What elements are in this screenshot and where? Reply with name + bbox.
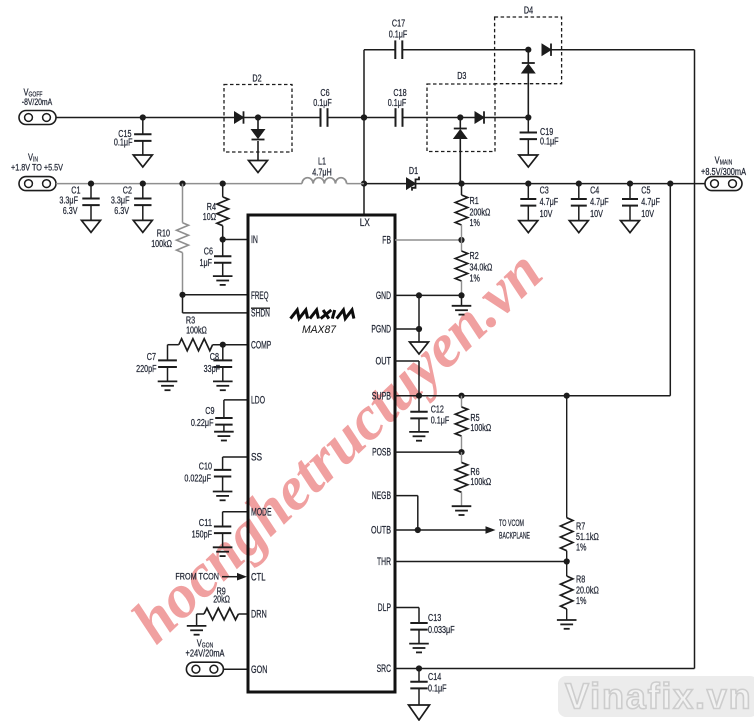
svg-text:BACKPLANE: BACKPLANE bbox=[499, 531, 530, 541]
svg-text:PGND: PGND bbox=[371, 324, 391, 336]
svg-text:+24V/20mA: +24V/20mA bbox=[186, 649, 225, 660]
svg-text:1%: 1% bbox=[470, 218, 480, 229]
svg-text:C12: C12 bbox=[431, 404, 445, 415]
svg-text:150pF: 150pF bbox=[192, 530, 212, 541]
svg-text:1%: 1% bbox=[576, 596, 586, 607]
svg-text:SRC: SRC bbox=[377, 663, 391, 675]
svg-text:C13: C13 bbox=[428, 613, 442, 624]
svg-text:GON: GON bbox=[251, 664, 267, 676]
svg-text:0.1μF: 0.1μF bbox=[313, 98, 332, 109]
svg-text:COMP: COMP bbox=[251, 339, 271, 351]
svg-text:0.22μF: 0.22μF bbox=[191, 418, 214, 429]
svg-text:C17: C17 bbox=[392, 19, 406, 30]
svg-text:CTL: CTL bbox=[251, 571, 266, 583]
svg-text:L1: L1 bbox=[318, 156, 326, 167]
svg-text:1%: 1% bbox=[470, 274, 480, 285]
svg-text:C8: C8 bbox=[210, 352, 220, 363]
svg-text:51.1kΩ: 51.1kΩ bbox=[576, 532, 599, 543]
svg-text:100kΩ: 100kΩ bbox=[186, 326, 207, 337]
svg-text:10V: 10V bbox=[641, 209, 654, 220]
svg-text:4.7μH: 4.7μH bbox=[312, 168, 331, 179]
svg-text:3.3μF: 3.3μF bbox=[111, 196, 130, 207]
svg-text:0.1μF: 0.1μF bbox=[540, 137, 559, 148]
svg-text:C11: C11 bbox=[199, 518, 213, 529]
svg-text:20.0kΩ: 20.0kΩ bbox=[576, 585, 599, 596]
svg-text:THR: THR bbox=[377, 556, 391, 568]
svg-text:1%: 1% bbox=[576, 543, 586, 554]
svg-text:3.3μF: 3.3μF bbox=[59, 196, 78, 207]
svg-text:D1: D1 bbox=[409, 166, 419, 177]
svg-text:R2: R2 bbox=[470, 251, 480, 262]
svg-text:LX: LX bbox=[360, 217, 370, 229]
svg-text:OUTB: OUTB bbox=[371, 525, 391, 537]
svg-text:0.1μF: 0.1μF bbox=[114, 137, 133, 148]
svg-text:Vinafix.vn: Vinafix.vn bbox=[565, 676, 752, 717]
svg-text:R7: R7 bbox=[576, 521, 586, 532]
svg-text:34.0kΩ: 34.0kΩ bbox=[470, 263, 493, 274]
svg-text:0.1μF: 0.1μF bbox=[389, 30, 408, 41]
svg-text:OUT: OUT bbox=[376, 356, 392, 368]
svg-text:D4: D4 bbox=[524, 6, 534, 17]
svg-text:FROM TCON: FROM TCON bbox=[175, 572, 219, 582]
svg-text:LDO: LDO bbox=[251, 395, 265, 407]
svg-text:0.033μF: 0.033μF bbox=[428, 625, 455, 636]
svg-text:C6: C6 bbox=[204, 247, 214, 258]
svg-text:0.1μF: 0.1μF bbox=[388, 98, 407, 109]
svg-text:R10: R10 bbox=[157, 229, 171, 240]
svg-text:FB: FB bbox=[382, 235, 391, 247]
svg-text:DLP: DLP bbox=[378, 602, 391, 614]
svg-text:R1: R1 bbox=[470, 196, 480, 207]
svg-text:MAIN: MAIN bbox=[720, 160, 733, 167]
svg-text:0.1μF: 0.1μF bbox=[431, 416, 450, 427]
svg-text:NEGB: NEGB bbox=[372, 490, 391, 502]
svg-text:220pF: 220pF bbox=[136, 364, 156, 375]
svg-text:C7: C7 bbox=[147, 352, 157, 363]
svg-text:C10: C10 bbox=[199, 462, 213, 473]
svg-text:C3: C3 bbox=[540, 186, 550, 197]
svg-text:1μF: 1μF bbox=[200, 258, 213, 269]
svg-text:10V: 10V bbox=[590, 209, 603, 220]
svg-text:+1.8V TO +5.5V: +1.8V TO +5.5V bbox=[11, 162, 64, 173]
svg-text:20kΩ: 20kΩ bbox=[213, 595, 230, 606]
svg-text:4.7μF: 4.7μF bbox=[590, 197, 609, 208]
svg-text:6.3V: 6.3V bbox=[63, 206, 78, 217]
svg-text:C4: C4 bbox=[590, 186, 600, 197]
svg-text:MAX87: MAX87 bbox=[302, 324, 337, 336]
svg-text:C5: C5 bbox=[641, 186, 651, 197]
svg-text:SHDN: SHDN bbox=[251, 308, 270, 320]
svg-text:FREQ: FREQ bbox=[251, 290, 269, 302]
svg-text:10V: 10V bbox=[540, 209, 553, 220]
svg-text:TO VCOM: TO VCOM bbox=[499, 518, 524, 528]
svg-text:+8.5V/300mA: +8.5V/300mA bbox=[701, 167, 746, 178]
svg-text:R8: R8 bbox=[576, 575, 586, 586]
svg-text:SUPB: SUPB bbox=[372, 390, 391, 402]
svg-text:SS: SS bbox=[251, 452, 262, 464]
svg-text:-8V/20mA: -8V/20mA bbox=[22, 97, 53, 108]
svg-text:100kΩ: 100kΩ bbox=[470, 423, 491, 434]
svg-text:100kΩ: 100kΩ bbox=[151, 239, 172, 250]
svg-text:0.1μF: 0.1μF bbox=[428, 684, 447, 695]
svg-text:GND: GND bbox=[376, 290, 391, 302]
svg-text:D3: D3 bbox=[457, 71, 467, 82]
svg-text:POSB: POSB bbox=[372, 447, 391, 459]
svg-text:IN: IN bbox=[251, 234, 258, 246]
svg-text:200kΩ: 200kΩ bbox=[470, 208, 491, 219]
svg-text:100kΩ: 100kΩ bbox=[470, 477, 491, 488]
svg-text:DRN: DRN bbox=[251, 609, 267, 621]
svg-text:C14: C14 bbox=[428, 672, 442, 683]
svg-text:10Ω: 10Ω bbox=[203, 212, 217, 223]
svg-text:C9: C9 bbox=[205, 406, 215, 417]
svg-text:4.7μF: 4.7μF bbox=[641, 197, 660, 208]
svg-text:6.3V: 6.3V bbox=[114, 206, 129, 217]
svg-text:4.7μF: 4.7μF bbox=[540, 197, 559, 208]
svg-text:0.022μF: 0.022μF bbox=[184, 474, 211, 485]
svg-text:D2: D2 bbox=[252, 74, 262, 85]
svg-text:MODE: MODE bbox=[251, 506, 272, 518]
svg-text:33pF: 33pF bbox=[204, 364, 220, 375]
